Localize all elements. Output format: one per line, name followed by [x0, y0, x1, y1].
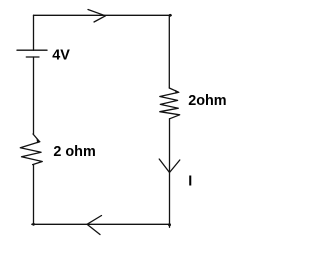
svg-text:2 ohm: 2 ohm	[53, 144, 95, 160]
node top-right junction blob	[169, 14, 172, 17]
label I	[188, 174, 192, 190]
arrowhead current direction down on right wire	[159, 159, 180, 173]
wire left vertical middle (battery to resistor)	[33, 57, 35, 134]
arrowhead current direction right on top wire	[88, 10, 106, 23]
svg-text:I: I	[188, 174, 192, 190]
wire left vertical upper (top corner to battery)	[33, 15, 35, 50]
label 2 ohm	[53, 144, 95, 160]
resistor R2 2ohm (right zigzag)	[160, 88, 180, 119]
wire right vertical upper (top corner to resistor)	[168, 15, 170, 88]
label 4V	[52, 48, 70, 64]
svg-text:4V: 4V	[52, 48, 70, 64]
node bottom-right junction blob	[168, 223, 171, 226]
arrowhead current direction left on bottom wire	[87, 216, 102, 235]
resistor R1 2 ohm (left zigzag)	[20, 134, 42, 165]
wire bottom horizontal	[32, 223, 170, 225]
blob at first zig of left resistor	[37, 139, 41, 143]
battery V1 short plate	[26, 56, 39, 58]
wire right vertical lower (resistor through arrow to bottom corner)	[169, 119, 171, 228]
wire left vertical lower (resistor to bottom corner)	[33, 165, 35, 225]
svg-text:2ohm: 2ohm	[188, 93, 226, 109]
battery V1 long plate	[17, 49, 47, 51]
wire top horizontal	[34, 14, 172, 16]
node bottom-left junction blob	[32, 223, 35, 226]
blob at first zig of right resistor	[175, 90, 180, 94]
label 2ohm	[188, 93, 226, 109]
